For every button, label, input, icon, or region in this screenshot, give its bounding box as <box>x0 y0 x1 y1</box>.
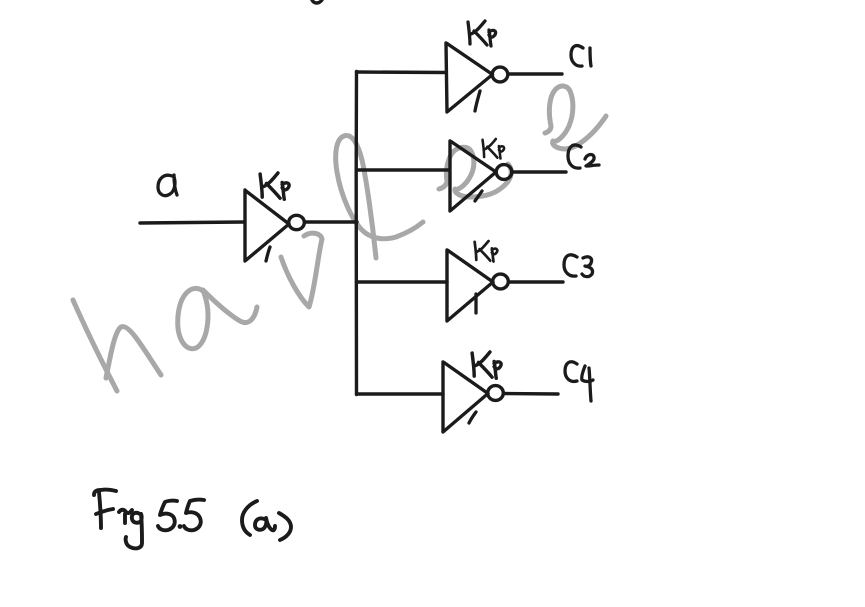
label 1 U2 <box>475 91 480 111</box>
label C4 <box>565 362 577 382</box>
label Kp U1 <box>260 173 289 199</box>
wire branch to U5 <box>357 392 444 395</box>
label Kp U5 <box>472 352 501 378</box>
inverter U1 output bubble <box>289 215 305 229</box>
inverter U4 triangle <box>447 250 493 321</box>
label 1 U4 <box>474 294 477 313</box>
wire U3 output C2 <box>512 170 566 173</box>
label 1 U5 <box>469 412 476 423</box>
wire branch to U4 <box>357 280 448 283</box>
caption Fig 5.5 (a) <box>94 490 291 549</box>
inverter U5 triangle <box>443 362 488 432</box>
inverter U3 triangle <box>450 141 496 211</box>
label Kp U3 <box>483 139 505 159</box>
inverter U1 triangle <box>245 190 289 261</box>
wire U2 output C1 <box>508 72 562 75</box>
label C2 <box>568 145 581 168</box>
wire U1 output to bus <box>305 220 358 223</box>
inverter U5 output bubble <box>488 386 504 401</box>
wire U4 output C3 <box>509 280 563 283</box>
label C1 <box>571 46 583 67</box>
wire U5 output C4 <box>504 392 558 396</box>
node a input wire <box>140 222 244 223</box>
label Kp U2 <box>468 21 496 46</box>
vertical bus wire <box>354 72 358 395</box>
inverter U3 output bubble <box>496 165 512 180</box>
label 1 U1 <box>266 247 270 261</box>
wire branch to U2 <box>357 70 447 74</box>
wire branch to U3 <box>357 168 450 171</box>
inverter U4 output bubble <box>493 274 509 289</box>
watermark handwriting "harlee" <box>73 86 606 391</box>
stray ink mark at top edge <box>312 0 322 3</box>
label C3 <box>564 255 577 276</box>
inverter U2 output bubble <box>492 67 508 82</box>
label Kp U4 <box>475 241 498 262</box>
label 1 U3 <box>475 191 482 201</box>
inverter U2 triangle <box>446 43 493 112</box>
label a (input net) <box>158 175 175 195</box>
